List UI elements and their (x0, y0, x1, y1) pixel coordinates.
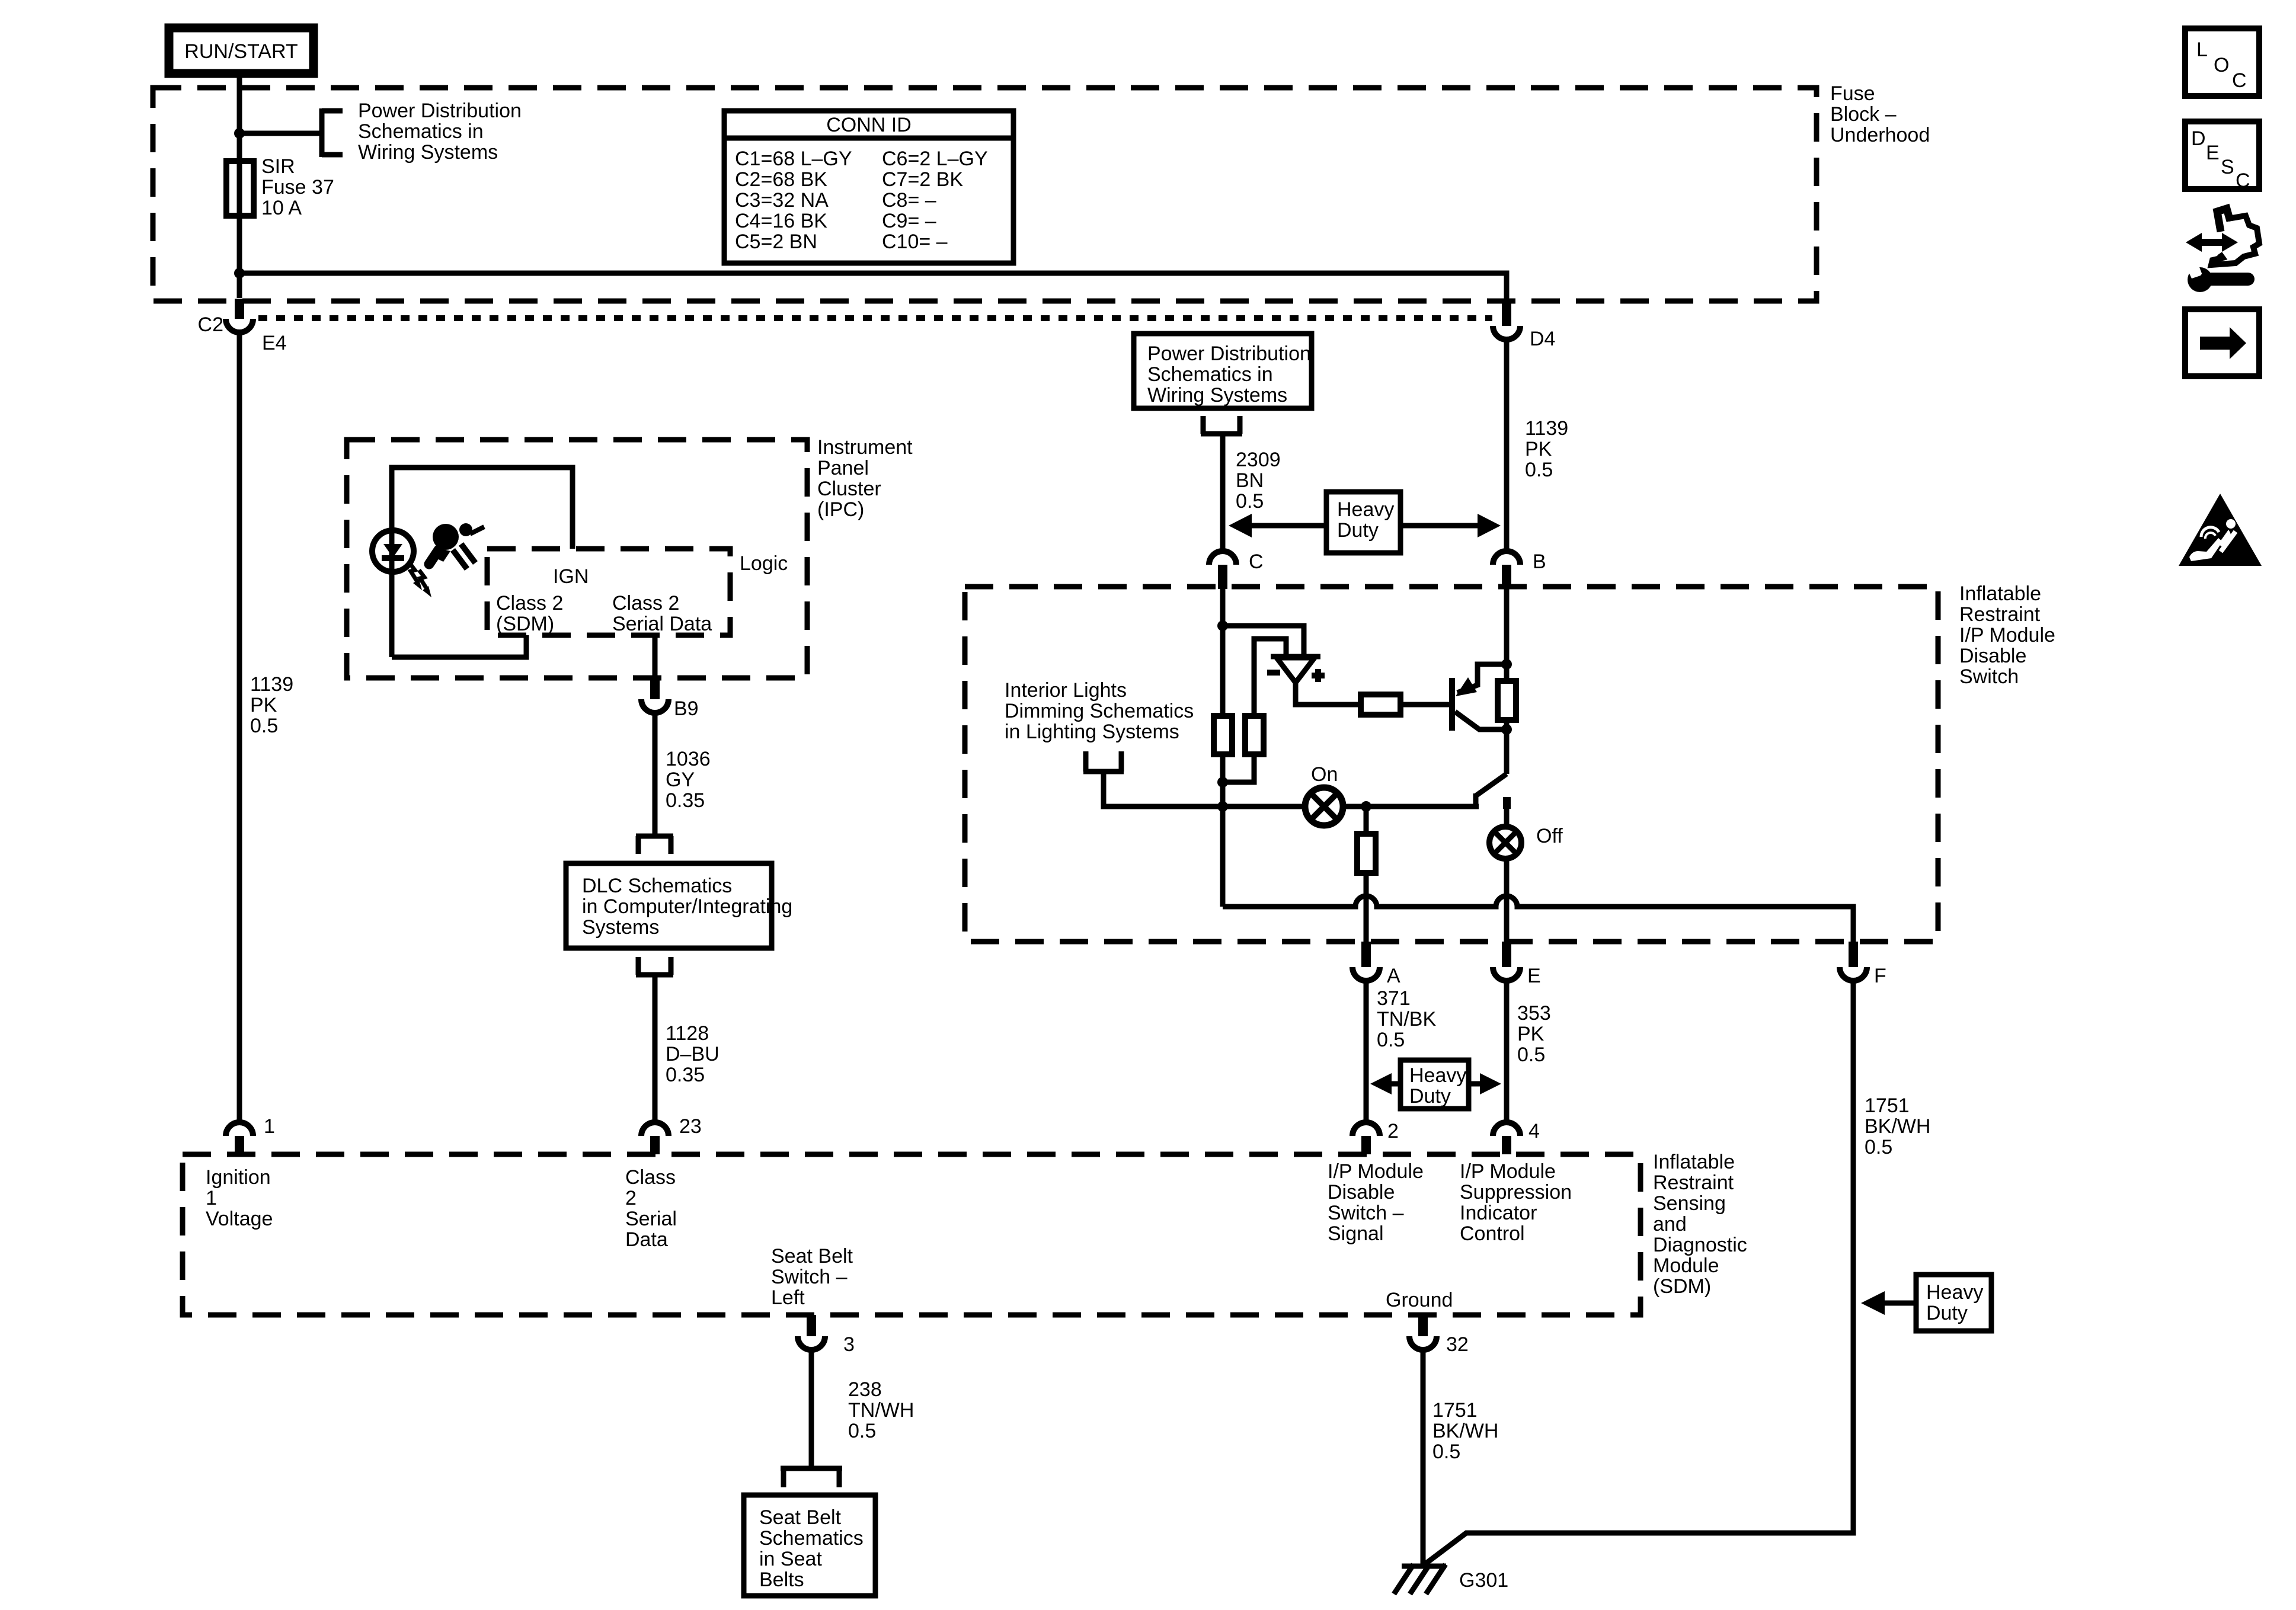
resistor R4 A column (1357, 834, 1376, 873)
switch blade (1476, 774, 1507, 806)
svg-text:F: F (1874, 965, 1886, 987)
transistor Q1 (1452, 664, 1507, 731)
svg-text:C3=32 NA: C3=32 NA (735, 189, 829, 212)
bracket below power distribution box (1201, 416, 1242, 434)
icon airbag caution triangle (2179, 494, 2262, 566)
wire fuse to C2 (237, 216, 242, 298)
wire A to connector 2 (1364, 981, 1369, 1123)
svg-text:Seat Belt: Seat Belt (759, 1506, 842, 1529)
RUN/START power source box (169, 28, 314, 73)
Class 2 (SDM) label (496, 592, 563, 635)
node On row left rail (1217, 801, 1228, 812)
connector B9 (641, 678, 699, 720)
svg-text:Schematics in: Schematics in (1147, 363, 1273, 386)
wire to comparator minus input (1254, 639, 1286, 716)
resistor R3 right rail (1498, 681, 1516, 720)
svg-text:Logic: Logic (740, 552, 788, 575)
fuse SIR Fuse 37 10A (226, 161, 254, 216)
svg-text:Restraint: Restraint (1653, 1172, 1734, 1194)
wire C2 to connector 1 (237, 332, 242, 1123)
right rail from B (1504, 589, 1510, 681)
wire D4 to B (1504, 340, 1510, 552)
label class 2 serial data (625, 1166, 677, 1251)
bracket below DLC box (636, 957, 673, 975)
svg-text:Underhood: Underhood (1830, 124, 1930, 146)
Class 2 Serial Data label (612, 592, 712, 635)
svg-text:Inflatable: Inflatable (1653, 1151, 1735, 1173)
wire logic to B9 (653, 635, 658, 679)
svg-text:0.5: 0.5 (1525, 459, 1553, 481)
svg-text:C5=2 BN: C5=2 BN (735, 231, 817, 253)
svg-text:Heavy: Heavy (1926, 1281, 1983, 1304)
svg-text:IGN: IGN (553, 565, 589, 588)
svg-text:Fuse 37: Fuse 37 (261, 176, 334, 199)
svg-text:1: 1 (206, 1187, 217, 1209)
svg-text:E4: E4 (262, 332, 287, 354)
svg-text:Seat Belt: Seat Belt (771, 1245, 853, 1267)
svg-text:C: C (2232, 69, 2247, 92)
svg-text:Dimming Schematics: Dimming Schematics (1005, 700, 1194, 722)
svg-text:23: 23 (679, 1115, 702, 1138)
svg-text:Signal: Signal (1328, 1222, 1384, 1245)
svg-text:Indicator: Indicator (1460, 1202, 1537, 1224)
svg-text:0.35: 0.35 (666, 789, 705, 812)
svg-text:3: 3 (843, 1333, 855, 1356)
svg-text:Class 2: Class 2 (496, 592, 563, 614)
node R2 join (1217, 777, 1228, 788)
svg-text:Cluster: Cluster (817, 478, 881, 500)
svg-text:Class 2: Class 2 (612, 592, 679, 614)
power distribution reference box (middle) (1134, 334, 1312, 408)
svg-text:D: D (2191, 127, 2206, 150)
svg-text:0.5: 0.5 (1432, 1441, 1460, 1463)
svg-text:Instrument: Instrument (817, 436, 913, 459)
label seat belt switch left (771, 1245, 853, 1309)
svg-text:O: O (2214, 54, 2229, 76)
svg-text:Duty: Duty (1409, 1085, 1451, 1108)
svg-text:1751: 1751 (1865, 1094, 1910, 1117)
svg-text:TN/BK: TN/BK (1377, 1008, 1436, 1030)
svg-text:Duty: Duty (1926, 1302, 1968, 1324)
svg-text:Control: Control (1460, 1222, 1525, 1245)
svg-text:Fuse: Fuse (1830, 82, 1875, 105)
node junction at power distribution branch (234, 128, 245, 139)
label 1751 BK/WH 0.5 right (1865, 1094, 1930, 1158)
svg-text:C4=16 BK: C4=16 BK (735, 210, 827, 232)
svg-text:GY: GY (666, 769, 695, 791)
heavy duty box middle (1400, 1060, 1469, 1109)
svg-text:238: 238 (848, 1378, 882, 1401)
svg-text:On: On (1311, 763, 1338, 786)
connector 1 (226, 1115, 275, 1154)
label 1139 PK 0.5 right (1525, 417, 1568, 481)
svg-text:in Computer/Integrating: in Computer/Integrating (582, 895, 792, 918)
wire E to connector 4 (1504, 981, 1510, 1123)
connector B (1493, 550, 1546, 589)
svg-text:I/P Module: I/P Module (1328, 1160, 1424, 1183)
label I/P module suppression indicator control (1460, 1160, 1572, 1245)
resistor R5 base series (1361, 694, 1400, 715)
connector F (1840, 942, 1886, 987)
IPC label (817, 436, 913, 521)
svg-text:C2=68 BK: C2=68 BK (735, 168, 827, 191)
wire RUN/START to fuse (237, 73, 242, 161)
svg-text:BK/WH: BK/WH (1432, 1420, 1498, 1442)
label 371 TN/BK 0.5 (1377, 987, 1436, 1051)
svg-text:Wiring Systems: Wiring Systems (358, 141, 498, 164)
svg-text:Wiring Systems: Wiring Systems (1147, 384, 1287, 406)
airbag person icon (429, 523, 484, 569)
svg-text:4: 4 (1528, 1120, 1540, 1142)
svg-text:Panel: Panel (817, 457, 869, 479)
label 2309 BN 0.5 (1236, 449, 1281, 513)
icon arrow box (2185, 309, 2259, 376)
connector C (1209, 550, 1264, 589)
svg-text:Left: Left (771, 1286, 805, 1309)
svg-text:CONN ID: CONN ID (826, 114, 912, 136)
svg-text:(SDM): (SDM) (496, 613, 554, 635)
svg-text:C1=68 L–GY: C1=68 L–GY (735, 148, 852, 170)
label 1139 PK 0.5 left (250, 673, 293, 737)
label SIR Fuse 37 10 A (261, 155, 334, 219)
E column wire (1504, 859, 1510, 944)
svg-text:Restraint: Restraint (1959, 603, 2041, 626)
icon LOC box (2185, 28, 2259, 96)
wire to comparator plus input (1223, 626, 1304, 657)
svg-text:BK/WH: BK/WH (1865, 1115, 1930, 1138)
svg-text:Heavy: Heavy (1409, 1064, 1466, 1087)
node collector join (1501, 724, 1512, 735)
A column wire upper (1364, 806, 1369, 834)
node comparator branch (1217, 620, 1228, 631)
svg-text:RUN/START: RUN/START (184, 40, 298, 63)
connector E (1493, 942, 1541, 987)
svg-text:Data: Data (625, 1228, 668, 1251)
svg-text:353: 353 (1517, 1002, 1551, 1025)
inflatable restraint I/P module disable switch dashed box (965, 587, 1938, 942)
left rail from C (1220, 589, 1226, 907)
svg-text:TN/WH: TN/WH (848, 1399, 914, 1422)
node emitter join (1501, 659, 1512, 670)
dotted in-line connector row C2/D4 (258, 315, 1492, 321)
svg-text:in Lighting Systems: in Lighting Systems (1005, 721, 1179, 743)
airbag indicator LED (372, 530, 431, 597)
SDM label (1653, 1151, 1747, 1298)
IPC dashed box (347, 440, 807, 678)
svg-text:1128: 1128 (666, 1022, 709, 1045)
heavy duty left arrow (1229, 514, 1326, 537)
wire B9 to DLC bracket (653, 713, 658, 836)
wire interior lights to On row (1104, 772, 1479, 806)
svg-text:1139: 1139 (1525, 417, 1568, 440)
svg-text:S: S (2221, 156, 2234, 178)
svg-text:E: E (2206, 142, 2220, 164)
svg-text:Suppression: Suppression (1460, 1181, 1572, 1204)
connector 3 (798, 1315, 855, 1356)
resistor R2 (1245, 716, 1264, 754)
bracket above DLC box (636, 836, 673, 854)
wire 3 to seat belt bracket (809, 1350, 814, 1468)
heavy duty right arrow (1400, 514, 1501, 537)
svg-text:Diagnostic: Diagnostic (1653, 1234, 1747, 1256)
logic dashed box (487, 549, 730, 635)
Off branch fixed contact (1504, 798, 1510, 827)
svg-text:0.5: 0.5 (1236, 490, 1264, 513)
DLC schematics box (566, 863, 792, 948)
wire power distribution to C (1220, 434, 1226, 552)
connector C2/E4 (198, 299, 287, 354)
svg-text:B: B (1533, 550, 1546, 573)
svg-text:Sensing: Sensing (1653, 1192, 1726, 1215)
svg-text:10 A: 10 A (261, 197, 302, 219)
label 1751 BK/WH 0.5 bottom (1432, 1399, 1498, 1463)
svg-text:BN: BN (1236, 469, 1264, 492)
svg-text:C: C (2236, 169, 2250, 192)
svg-text:and: and (1653, 1213, 1687, 1235)
CONN ID table (724, 111, 1013, 263)
icon vehicle double arrow and wrench (2186, 209, 2259, 292)
svg-text:Inflatable: Inflatable (1959, 582, 2041, 605)
On lamp (1305, 763, 1343, 825)
svg-text:2309: 2309 (1236, 449, 1281, 471)
svg-text:2: 2 (1387, 1120, 1399, 1142)
svg-text:PK: PK (1517, 1023, 1544, 1045)
fuse block label (1830, 82, 1930, 146)
svg-text:2: 2 (625, 1187, 637, 1209)
svg-text:B9: B9 (674, 697, 699, 720)
label 353 PK 0.5 (1517, 1002, 1551, 1066)
svg-text:1: 1 (264, 1115, 275, 1138)
A column wire lower (1364, 873, 1369, 944)
svg-text:Switch: Switch (1959, 665, 2019, 688)
wire DLC to connector 23 (653, 975, 658, 1123)
bus wire fuse block to D4 (239, 273, 1507, 300)
svg-text:C: C (1249, 550, 1264, 573)
node junction at bus wire (234, 268, 245, 279)
svg-text:D–BU: D–BU (666, 1043, 720, 1065)
connector D4 (1493, 299, 1555, 350)
label ignition 1 voltage (206, 1166, 273, 1230)
connector A (1352, 942, 1400, 987)
svg-text:Module: Module (1653, 1254, 1719, 1277)
svg-text:Power Distribution: Power Distribution (1147, 343, 1311, 365)
ground G301 (1394, 1564, 1508, 1594)
svg-text:Schematics in: Schematics in (358, 120, 484, 143)
svg-text:0.5: 0.5 (848, 1420, 876, 1442)
svg-text:0.5: 0.5 (250, 715, 278, 737)
svg-text:C9= –: C9= – (882, 210, 936, 232)
svg-text:371: 371 (1377, 987, 1411, 1010)
svg-text:C8= –: C8= – (882, 189, 936, 212)
comparator output wire (1296, 683, 1361, 705)
wire 32 to ground (1421, 1350, 1426, 1566)
svg-text:Serial Data: Serial Data (612, 613, 712, 635)
bracket power distribution reference (322, 108, 343, 157)
resistor R1 left (1214, 716, 1232, 754)
svg-text:PK: PK (1525, 438, 1552, 460)
svg-text:0.5: 0.5 (1517, 1044, 1545, 1066)
comparator U1 (1267, 657, 1325, 683)
svg-text:Switch –: Switch – (771, 1266, 848, 1288)
svg-text:I/P Module: I/P Module (1959, 624, 2055, 646)
interior lights bracket (1083, 751, 1124, 772)
svg-text:SIR: SIR (261, 155, 295, 178)
svg-text:Schematics: Schematics (759, 1527, 864, 1550)
icon DESC box (2185, 121, 2259, 192)
svg-text:C2: C2 (198, 313, 223, 336)
svg-text:(IPC): (IPC) (817, 498, 864, 521)
label 1036 GY 0.35 (666, 748, 711, 812)
svg-text:Belts: Belts (759, 1569, 804, 1591)
rail resistor to collector node (1504, 720, 1510, 774)
svg-text:Block –: Block – (1830, 103, 1897, 126)
heavy duty box bottom right (1916, 1275, 1991, 1331)
svg-text:(SDM): (SDM) (1653, 1275, 1711, 1298)
heavy duty middle left arrow (1370, 1073, 1400, 1094)
svg-text:0.35: 0.35 (666, 1064, 705, 1086)
svg-text:Class: Class (625, 1166, 676, 1189)
Off lamp (1489, 825, 1563, 859)
svg-text:in Seat: in Seat (759, 1548, 822, 1570)
connector 32 (1409, 1315, 1469, 1356)
svg-text:C6=2 L–GY: C6=2 L–GY (882, 148, 988, 170)
svg-text:A: A (1387, 965, 1400, 987)
svg-text:DLC Schematics: DLC Schematics (582, 875, 732, 897)
bottom collector bus with hops (1223, 896, 1853, 944)
heavy duty middle right arrow (1469, 1073, 1501, 1094)
svg-text:Disable: Disable (1959, 645, 2026, 667)
svg-text:32: 32 (1446, 1333, 1469, 1356)
svg-text:1036: 1036 (666, 748, 711, 770)
wire F down right side (1423, 981, 1853, 1566)
svg-text:Serial: Serial (625, 1208, 677, 1230)
svg-text:C10= –: C10= – (882, 231, 948, 253)
label 238 TN/WH 0.5 (848, 1378, 914, 1442)
IPC lamp loop wiring (392, 468, 573, 657)
svg-text:1139: 1139 (250, 673, 293, 696)
interior lights label (1005, 679, 1194, 743)
svg-text:0.5: 0.5 (1377, 1029, 1405, 1051)
SDM dashed box (183, 1154, 1641, 1315)
svg-text:L: L (2196, 39, 2208, 61)
fuse block - underhood dashed box (153, 88, 1817, 301)
label I/P module disable switch signal (1328, 1160, 1424, 1245)
svg-text:Systems: Systems (582, 916, 659, 939)
connector 23 (641, 1115, 702, 1154)
svg-text:D4: D4 (1530, 328, 1555, 350)
label power distribution schematics (fuse block) (358, 100, 522, 164)
svg-text:I/P Module: I/P Module (1460, 1160, 1556, 1183)
connector 2 (1352, 1120, 1399, 1154)
svg-text:Ground: Ground (1386, 1289, 1453, 1311)
heavy duty bottom arrow (1861, 1291, 1916, 1315)
svg-text:Interior Lights: Interior Lights (1005, 679, 1127, 702)
svg-text:Duty: Duty (1337, 519, 1379, 542)
svg-text:PK: PK (250, 694, 277, 716)
connector 4 (1493, 1120, 1540, 1154)
disable switch label (1959, 582, 2055, 688)
seat belt schematics box (744, 1495, 875, 1596)
svg-text:Heavy: Heavy (1337, 498, 1394, 521)
svg-text:0.5: 0.5 (1865, 1136, 1892, 1158)
svg-text:E: E (1527, 965, 1541, 987)
svg-text:Ignition: Ignition (206, 1166, 271, 1189)
svg-text:Power Distribution: Power Distribution (358, 100, 522, 122)
svg-text:C7=2 BK: C7=2 BK (882, 168, 963, 191)
svg-text:1751: 1751 (1432, 1399, 1478, 1422)
bracket above seat belt box (781, 1468, 842, 1487)
wire R2 bottom to rail node (1223, 754, 1254, 782)
svg-text:Voltage: Voltage (206, 1208, 273, 1230)
svg-text:G301: G301 (1459, 1569, 1508, 1592)
svg-text:Disable: Disable (1328, 1181, 1395, 1204)
node On row A column (1361, 801, 1371, 812)
label 1128 D-BU 0.35 (666, 1022, 720, 1086)
wire resistor to transistor base (1400, 702, 1450, 708)
svg-text:Off: Off (1536, 825, 1563, 847)
wire branch to power distribution reference (239, 131, 319, 136)
heavy duty box top (1326, 492, 1400, 553)
svg-text:Switch –: Switch – (1328, 1202, 1404, 1224)
